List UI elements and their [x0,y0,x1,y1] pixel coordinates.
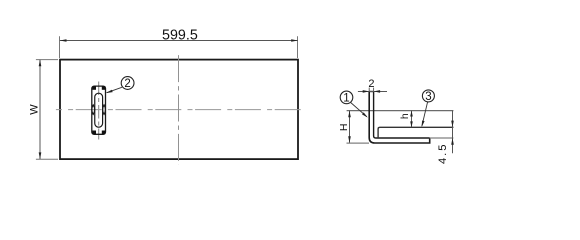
arrow bottom of W [39,152,42,159]
lance bridge left [92,105,95,114]
svg-text:4.5: 4.5 [437,143,449,164]
dim 4.5 arrow up (below B) [451,138,454,145]
svg-text:W: W [29,104,41,115]
dim H arrow up [348,111,351,118]
slot outer emboss outline [92,86,106,134]
dim 2 line [358,91,387,93]
sheet outline [60,60,298,160]
dim h line [411,111,413,128]
slot centerline [98,82,100,140]
dim 4.5 line [452,111,454,154]
dim 2 arrow left [363,90,370,93]
leader 3 [422,102,428,126]
leader 2 arrowhead [106,90,113,93]
leader 1 arrowhead [362,112,368,117]
leader 3 arrowhead [422,121,425,128]
arrow left of 599.5 [60,39,67,42]
dim H bottom extension [347,142,370,144]
svg-text:1: 1 [343,93,349,105]
leader 2 [107,87,122,92]
balloon circle 3 [422,90,434,102]
slot corner mark BL [92,131,96,135]
svg-text:2: 2 [368,78,374,90]
B extension to 4.5 dim [430,137,454,139]
svg-text:3: 3 [425,91,431,103]
dim h arrow down [410,121,413,127]
arrow top of W [39,60,42,67]
dim 4.5 arrow down (above A) [451,121,454,128]
hem bar top A [378,127,453,138]
dim h arrow up [410,111,413,117]
balloon circle 2 [121,77,134,90]
arrow right of 599.5 [291,39,298,42]
dimension line 599.5 [60,40,298,42]
extension line left edge up [59,36,61,58]
leg outer contour [369,92,430,144]
svg-text:599.5: 599.5 [162,27,198,43]
slot inner obround [95,93,103,127]
dimension line W [39,60,41,160]
dim H line [349,111,351,143]
svg-text:H: H [338,124,350,132]
extension line bottom edge left [36,158,58,160]
vertical centerline [178,55,180,165]
svg-text:h: h [399,113,411,119]
leg inner contour [374,92,430,139]
dim H arrow down [348,136,351,143]
extension line top edge left [36,59,58,61]
svg-text:2: 2 [124,78,130,90]
slot corner mark TL [92,86,96,90]
top surface line T [347,110,454,112]
leader 1 [351,103,367,117]
slot corner mark TR [102,86,106,90]
dim 2 ext left [368,88,370,92]
extension line right edge up [297,36,299,58]
balloon circle 1 [340,91,353,104]
dim 2 arrow right [374,90,381,93]
lance bridge right [103,105,106,114]
dim 2 ext right [373,88,375,92]
slot corner mark BR [102,131,106,135]
horizontal centerline [56,109,302,111]
leg top cap [369,91,373,93]
